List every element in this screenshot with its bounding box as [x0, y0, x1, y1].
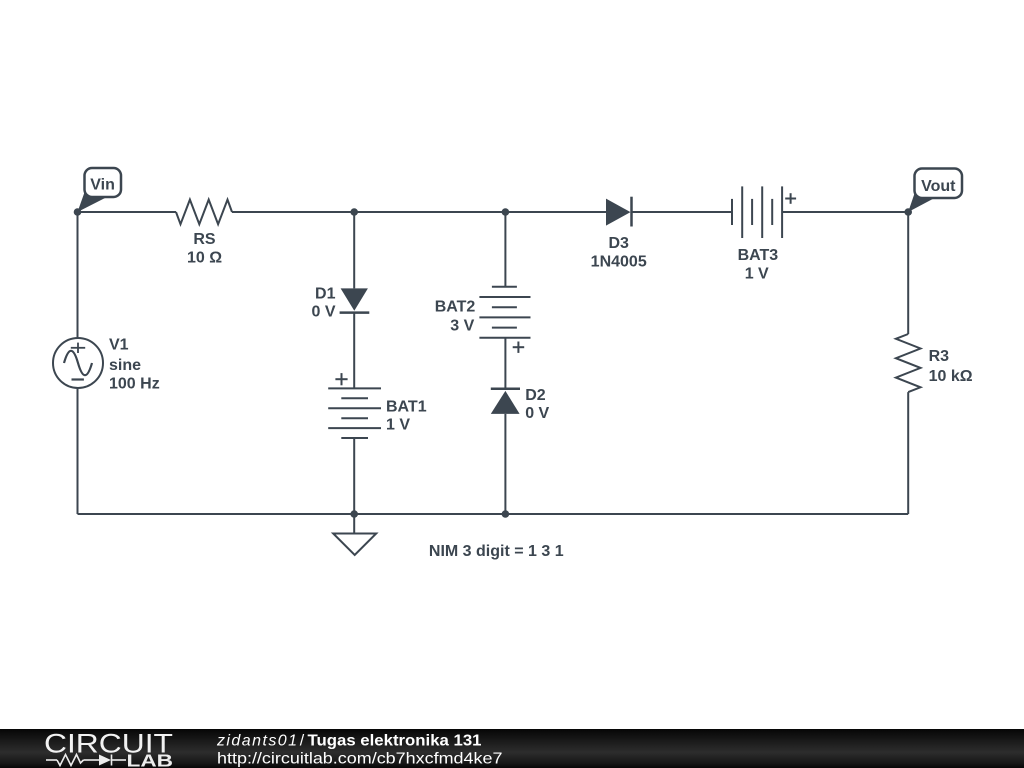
svg-text:0 V: 0 V: [311, 304, 335, 321]
node D2 bottom junction dot: [502, 510, 510, 518]
wire D1 to BAT1: [353, 313, 355, 389]
svg-text:1N4005: 1N4005: [591, 254, 647, 271]
svg-text:/: /: [300, 733, 305, 750]
svg-text:Tugas elektronika 131: Tugas elektronika 131: [308, 733, 482, 750]
flag Vin: [78, 168, 122, 212]
node Vin junction dot: [74, 208, 82, 216]
wire BAT1 to bottom rail: [353, 438, 355, 514]
svg-text:100 Hz: 100 Hz: [109, 376, 160, 393]
wire R3 to bottom rail: [907, 392, 909, 514]
flag Vout: [908, 169, 962, 213]
node D1 bottom junction dot: [350, 510, 358, 518]
diode D1: [340, 288, 370, 312]
svg-text:1 V: 1 V: [745, 266, 769, 283]
svg-text:sine: sine: [109, 357, 141, 374]
svg-text:0 V: 0 V: [525, 405, 549, 422]
footer bar: [0, 729, 1024, 768]
wire BAT2 to D2: [504, 338, 506, 389]
battery BAT1: [328, 373, 381, 438]
svg-text:3 V: 3 V: [450, 317, 474, 334]
wire D1 branch upper: [353, 212, 355, 288]
logo resistor-diode glyph: [46, 755, 126, 766]
svg-text:D1: D1: [315, 285, 336, 302]
svg-text:LAB: LAB: [127, 751, 174, 768]
svg-text:V1: V1: [109, 337, 129, 354]
svg-text:BAT2: BAT2: [435, 299, 476, 316]
svg-text:1 V: 1 V: [386, 417, 410, 434]
wire top from RS to D3: [232, 211, 606, 213]
wire D2 to bottom rail: [504, 414, 506, 514]
node BAT2 top junction dot: [502, 208, 510, 216]
resistor R3: [896, 334, 921, 392]
svg-text:R3: R3: [929, 348, 950, 365]
svg-text:BAT1: BAT1: [386, 399, 427, 416]
node Vout junction dot: [904, 208, 912, 216]
diode D3: [606, 197, 632, 227]
svg-text:D3: D3: [608, 235, 629, 252]
svg-text:10 kΩ: 10 kΩ: [929, 368, 973, 385]
svg-text:Vout: Vout: [921, 178, 956, 195]
wire left vertical upper (Vin node to V1): [77, 212, 79, 338]
ground: [333, 514, 376, 555]
svg-text:RS: RS: [193, 231, 216, 248]
svg-text:NIM 3 digit = 1 3 1: NIM 3 digit = 1 3 1: [429, 543, 564, 560]
wire bottom rail: [78, 513, 909, 515]
svg-text:zidants01: zidants01: [216, 733, 297, 750]
svg-text:10 Ω: 10 Ω: [187, 250, 222, 267]
resistor RS: [176, 200, 232, 225]
wire BAT2 branch upper: [504, 212, 506, 287]
voltage source V1: [53, 338, 103, 388]
node D1 top junction dot: [350, 208, 358, 216]
wire top from BAT3 to Vout node: [782, 211, 908, 213]
svg-text:Vin: Vin: [90, 177, 115, 194]
wire top from D3 to BAT3: [632, 211, 733, 213]
battery BAT3: [732, 186, 796, 238]
svg-text:http://circuitlab.com/cb7hxcfm: http://circuitlab.com/cb7hxcfmd4ke7: [217, 751, 503, 768]
wire left vertical lower (V1 to bottom rail): [77, 388, 79, 514]
wire R3 branch upper (Vout node to R3): [907, 212, 909, 334]
svg-text:D2: D2: [525, 387, 546, 404]
diode D2: [491, 389, 520, 414]
battery BAT2: [479, 287, 530, 353]
svg-text:BAT3: BAT3: [738, 247, 779, 264]
wire top from Vin node to RS: [78, 211, 177, 213]
